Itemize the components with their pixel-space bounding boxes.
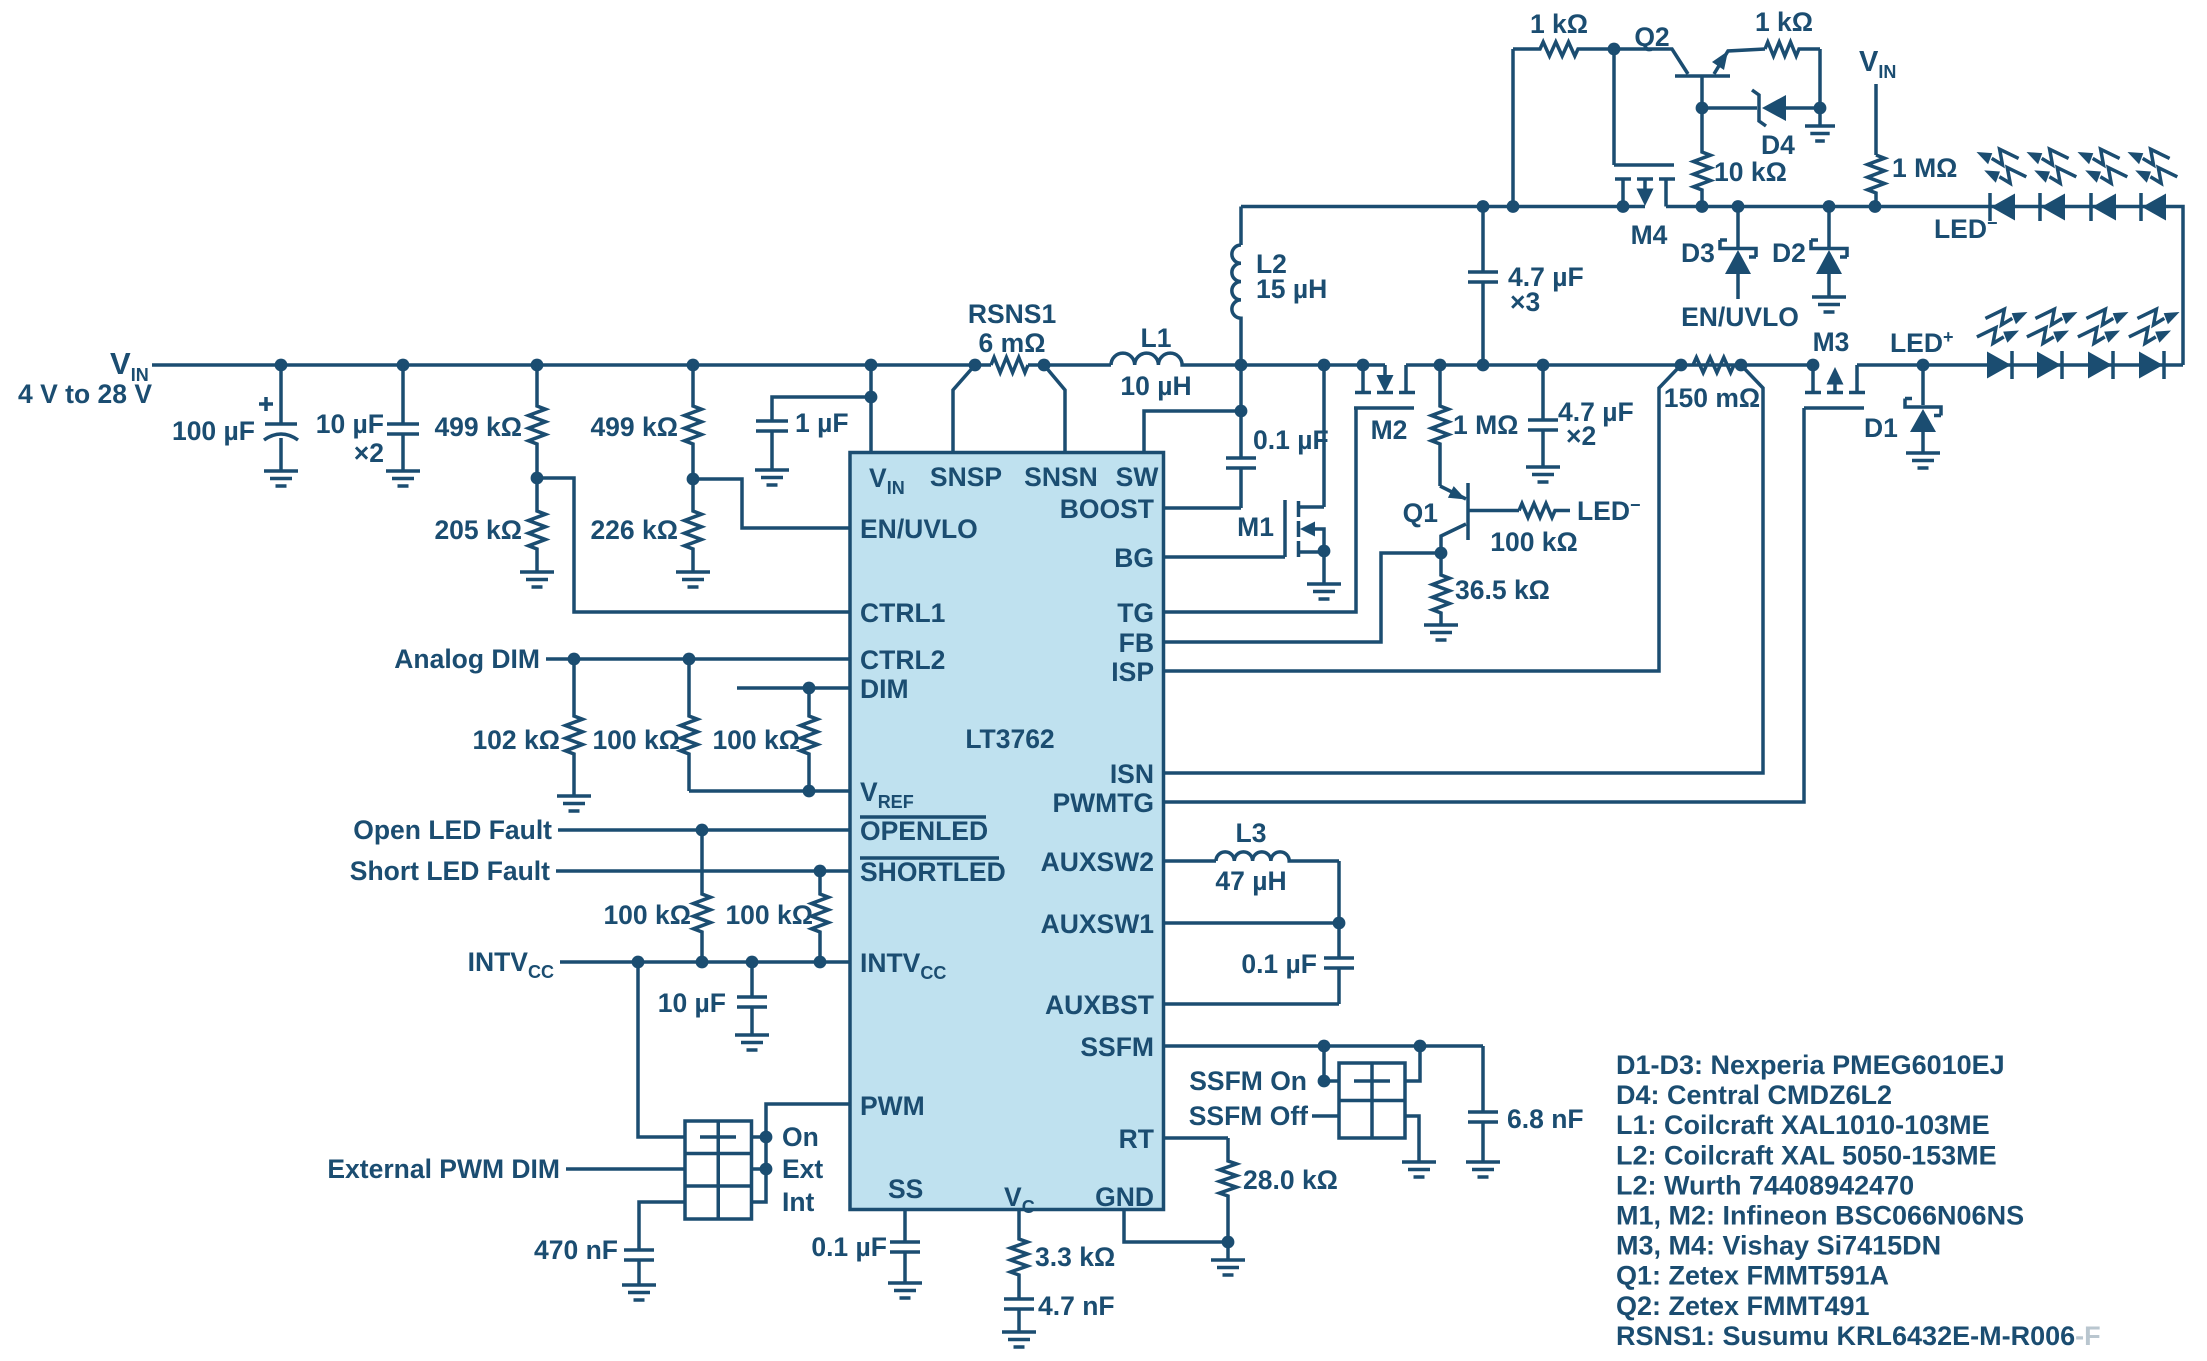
ground below SS cap bbox=[888, 1283, 922, 1298]
transistor Q2 collector lead bbox=[1614, 49, 1688, 74]
junction LED+ node bbox=[1917, 359, 1930, 372]
diode D2 cathode lead bbox=[1827, 207, 1831, 250]
svg-text:LED−: LED− bbox=[1934, 213, 1998, 244]
LED (top row) triangle at x=2091 bbox=[2092, 194, 2116, 221]
resistor 226k (second divider bottom) bbox=[685, 479, 702, 572]
diode D3 anode lead bbox=[1736, 274, 1740, 299]
wire LED- rail left bbox=[1241, 205, 1645, 209]
junction M2 source on rail bbox=[1357, 359, 1370, 372]
svg-text:Q1: Q1 bbox=[1403, 498, 1438, 528]
transistor M4 gate bar bbox=[1614, 163, 1674, 167]
svg-text:ISN: ISN bbox=[1110, 759, 1154, 789]
junction SSFM/jumper right bbox=[1414, 1040, 1427, 1053]
wire ISN pin to 150m right bbox=[1164, 365, 1763, 773]
svg-text:100 kΩ: 100 kΩ bbox=[1490, 527, 1578, 557]
svg-text:OPENLED: OPENLED bbox=[860, 816, 988, 846]
transistor M4 source lead bbox=[1621, 179, 1625, 207]
svg-text:1 µF: 1 µF bbox=[795, 408, 849, 438]
wire LED- rail right bbox=[1666, 205, 1990, 209]
wire SSFM On stub bbox=[1324, 1079, 1339, 1083]
diode D2 cathode bar bbox=[1811, 240, 1847, 257]
svg-text:Short LED Fault: Short LED Fault bbox=[350, 856, 550, 886]
svg-text:ISP: ISP bbox=[1111, 657, 1154, 687]
svg-text:36.5 kΩ: 36.5 kΩ bbox=[1455, 575, 1550, 605]
capacitor C-470nF plates bbox=[624, 1250, 654, 1260]
transistor M2 body lead bbox=[1383, 365, 1387, 376]
wire bottom LED string bbox=[1923, 363, 2183, 367]
junction LED- rail / 1M VIN bbox=[1869, 200, 1882, 213]
ground below 470nF bbox=[622, 1285, 656, 1300]
wire External PWM DIM bbox=[566, 1167, 685, 1171]
wire 1k left riser bbox=[1511, 49, 1515, 207]
diode D1 bottom lead bbox=[1921, 432, 1925, 453]
light arrows LED bottom 4 bbox=[2137, 309, 2179, 325]
svg-text:M3, M4: Vishay Si7415DN: M3, M4: Vishay Si7415DN bbox=[1616, 1231, 1941, 1261]
junction GND/RT/ground bbox=[1222, 1236, 1235, 1249]
junction 150m right kelvin bbox=[1735, 359, 1748, 372]
wire VREF bbox=[689, 789, 851, 793]
wire jumper Ext stub bbox=[752, 1167, 767, 1171]
resistor 100k (openled) bbox=[694, 830, 711, 962]
svg-text:BOOST: BOOST bbox=[1060, 494, 1154, 524]
resistor 1M (Q1 collector) bbox=[1432, 365, 1449, 486]
wire ground stub GND node bbox=[1226, 1242, 1230, 1260]
svg-text:SSFM: SSFM bbox=[1080, 1032, 1154, 1062]
capacitor C-0.1uF boost top lead bbox=[1239, 411, 1243, 458]
transistor M3 source lead bbox=[1811, 365, 1815, 391]
junction LED- rail / D2 bbox=[1823, 200, 1836, 213]
wire FB pin bbox=[1164, 553, 1441, 642]
ground below 4.7nF bbox=[1002, 1332, 1036, 1347]
svg-text:SW: SW bbox=[1116, 462, 1159, 492]
svg-text:6.8 nF: 6.8 nF bbox=[1507, 1104, 1584, 1134]
resistor 499k (first divider top) bbox=[529, 365, 546, 478]
junction SSFM/On riser bbox=[1318, 1040, 1331, 1053]
resistor RSNS1 6mOhm bbox=[991, 357, 1028, 372]
light arrows LED bottom 1 bbox=[1985, 309, 2027, 325]
svg-text:D4: Central CMDZ6L2: D4: Central CMDZ6L2 bbox=[1616, 1080, 1892, 1110]
svg-text:100 µF: 100 µF bbox=[172, 416, 255, 446]
junction AnalogDIM/102k bbox=[568, 653, 581, 666]
junction D4 anode node bbox=[1814, 102, 1827, 115]
wire SSFM On riser bbox=[1322, 1046, 1326, 1081]
transistor M3 drain lead bbox=[1855, 365, 1859, 391]
capacitor C-4.7uFx3 bottom lead bbox=[1481, 282, 1485, 365]
LED (top row) triangle at x=2141 bbox=[2142, 194, 2166, 221]
svg-text:AUXSW2: AUXSW2 bbox=[1041, 847, 1154, 877]
svg-text:SNSN: SNSN bbox=[1024, 462, 1098, 492]
svg-text:FB: FB bbox=[1119, 628, 1154, 658]
svg-text:D1: D1 bbox=[1864, 413, 1898, 443]
resistor 150mOhm bbox=[1693, 357, 1734, 372]
junction INTVCC/100k-5 bbox=[814, 956, 827, 969]
svg-text:1 kΩ: 1 kΩ bbox=[1755, 7, 1813, 37]
wire rail L1 node to M1 drain node bbox=[1241, 363, 1385, 367]
ground below 36.5k bbox=[1424, 625, 1458, 640]
capacitor C-10uF top lead bbox=[401, 365, 405, 424]
ground below 100uF bbox=[264, 471, 298, 486]
resistor 1k right bbox=[1765, 42, 1820, 56]
transistor M1 body arrow bbox=[1300, 522, 1315, 537]
light arrows LED top 2 bbox=[2027, 149, 2069, 165]
junction Q2 collector node bbox=[1608, 43, 1621, 56]
capacitor C-4.7nF bottom lead bbox=[1017, 1309, 1021, 1332]
svg-text:×3: ×3 bbox=[1510, 287, 1540, 317]
resistor 205k (first divider bottom) bbox=[529, 478, 546, 572]
svg-text:D3: D3 bbox=[1681, 238, 1715, 268]
svg-text:205 kΩ: 205 kΩ bbox=[434, 515, 522, 545]
capacitor C-6.8nF plates bbox=[1468, 1112, 1498, 1122]
svg-text:L2: Wurth 74408942470: L2: Wurth 74408942470 bbox=[1616, 1170, 1914, 1200]
wire CTRL1 from divider 1 bbox=[537, 478, 851, 612]
wire SNSP kelvin bbox=[953, 365, 975, 452]
svg-text:4 V to 28 V: 4 V to 28 V bbox=[18, 379, 152, 409]
wire ISP pin to 150m left bbox=[1164, 365, 1681, 671]
capacitor C-0.1uF ss top lead bbox=[903, 1210, 907, 1243]
transistor M4 drain lead bbox=[1664, 179, 1668, 207]
svg-text:×2: ×2 bbox=[354, 438, 384, 468]
junction LED- rail / D3 bbox=[1732, 200, 1745, 213]
svg-text:L2: Coilcraft XAL 5050-153ME: L2: Coilcraft XAL 5050-153ME bbox=[1616, 1140, 1997, 1170]
svg-text:Q2: Zetex FMMT491: Q2: Zetex FMMT491 bbox=[1616, 1291, 1870, 1321]
svg-text:PWM: PWM bbox=[860, 1091, 925, 1121]
junction rail / 4.7uFx2 bbox=[1537, 359, 1550, 372]
svg-text:10 µF: 10 µF bbox=[658, 988, 726, 1018]
junction LED- rail / M4 source bbox=[1617, 200, 1630, 213]
svg-text:100 kΩ: 100 kΩ bbox=[592, 725, 680, 755]
junction VIN drop / 1uF branch bbox=[865, 391, 878, 404]
transistor M1 gate bar bbox=[1283, 500, 1287, 557]
wire OPENLED bbox=[558, 828, 851, 832]
junction SHORTLED/100k bbox=[814, 865, 827, 878]
resistor 102k bbox=[566, 659, 583, 796]
svg-text:D2: D2 bbox=[1772, 238, 1806, 268]
wire AUXBST pin bbox=[1164, 1002, 1339, 1006]
capacitor C-100uF top lead bbox=[279, 365, 283, 424]
ground below D2 bbox=[1812, 297, 1846, 312]
wire SHORTLED bbox=[556, 869, 851, 873]
wire top LED string bbox=[1990, 207, 2183, 366]
svg-text:INTVCC: INTVCC bbox=[468, 947, 554, 982]
svg-text:SHORTLED: SHORTLED bbox=[860, 857, 1006, 887]
ground below 102k bbox=[557, 796, 591, 811]
junction M1 source/body bbox=[1318, 545, 1331, 558]
wire RT pin bbox=[1164, 1136, 1228, 1140]
ground below GND node bbox=[1211, 1260, 1245, 1275]
wire VIN rail left segment bbox=[152, 363, 991, 367]
svg-text:EN/UVLO: EN/UVLO bbox=[1681, 302, 1799, 332]
transistor Q2 base lead bbox=[1700, 76, 1704, 108]
wire jumper On stub bbox=[752, 1135, 767, 1139]
svg-text:On: On bbox=[782, 1122, 819, 1152]
svg-text:LED−: LED− bbox=[1577, 495, 1641, 526]
capacitor C-470nF bottom lead bbox=[637, 1260, 641, 1285]
inductor L2 15uH bbox=[1232, 207, 1241, 366]
LED (bottom row) triangle at x=2062 bbox=[2037, 352, 2061, 379]
wire PWMTG pin to M3 gate bbox=[1164, 408, 1804, 802]
svg-text:RSNS1: Susumu KRL6432E-M-R006-: RSNS1: Susumu KRL6432E-M-R006-F bbox=[1616, 1321, 2101, 1351]
transistor M3 channel segments bbox=[1805, 391, 1865, 395]
svg-text:499 kΩ: 499 kΩ bbox=[590, 412, 678, 442]
light arrows LED top 1 bbox=[1977, 149, 2019, 165]
svg-text:6 mΩ: 6 mΩ bbox=[979, 328, 1046, 358]
svg-text:1 kΩ: 1 kΩ bbox=[1530, 9, 1588, 39]
svg-text:102 kΩ: 102 kΩ bbox=[472, 725, 560, 755]
resistor 499k (second divider top) bbox=[685, 365, 702, 479]
transistor M4 body lead bbox=[1643, 179, 1647, 189]
svg-text:PWMTG: PWMTG bbox=[1052, 788, 1154, 818]
wire Q2 node to M4 gate bbox=[1612, 49, 1616, 165]
LED (bottom row) triangle at x=2113 bbox=[2088, 352, 2112, 379]
capacitor C-0.1uF boost plates bbox=[1226, 458, 1256, 468]
resistor 10k bbox=[1694, 108, 1711, 207]
ground below 4.7uFx2 bbox=[1526, 467, 1560, 482]
diode D3 cathode bar bbox=[1720, 240, 1756, 257]
ground below 1uF bbox=[755, 470, 789, 485]
transistor M2 drain lead bbox=[1404, 365, 1408, 391]
capacitor C-1uF top lead bbox=[772, 397, 871, 421]
svg-text:Ext: Ext bbox=[782, 1154, 823, 1184]
svg-text:DIM: DIM bbox=[860, 674, 909, 704]
svg-text:SSFM On: SSFM On bbox=[1189, 1066, 1307, 1096]
capacitor C-0.1uF ss plates bbox=[890, 1242, 920, 1252]
capacitor C-4.7nF plates bbox=[1004, 1299, 1034, 1309]
wire VIN pin drop bbox=[869, 365, 873, 452]
wire INTVCC riser to jumper bbox=[638, 962, 685, 1137]
capacitor C-0.1uF boost bottom lead bbox=[1239, 468, 1243, 508]
wire SSFM Off stub bbox=[1312, 1114, 1339, 1118]
transistor M3 body arrow bbox=[1827, 367, 1844, 385]
diode D4 cathode lead bbox=[1702, 106, 1757, 110]
transistor Q1 base lead bbox=[1468, 509, 1519, 513]
junction 499k/205k divider 1 bbox=[531, 472, 544, 485]
junction SNSN kelvin bbox=[1038, 359, 1051, 372]
junction main rail / 10uF bbox=[397, 359, 410, 372]
junction main rail / 499k-2 bbox=[687, 359, 700, 372]
ground below M1 bbox=[1307, 584, 1341, 599]
wire rail M3 to LED+ bbox=[1857, 363, 1923, 367]
diode D3 triangle bbox=[1725, 250, 1751, 274]
svg-text:×2: ×2 bbox=[1566, 421, 1596, 451]
LED (top row) bar at x=2091 bbox=[2089, 193, 2093, 221]
wire GND pin bbox=[1124, 1210, 1228, 1243]
junction main rail / VIN pin drop bbox=[865, 359, 878, 372]
LED (bottom row) triangle at x=2012 bbox=[1987, 352, 2011, 379]
svg-text:226 kΩ: 226 kΩ bbox=[590, 515, 678, 545]
svg-text:M1: M1 bbox=[1237, 512, 1274, 542]
svg-text:RT: RT bbox=[1119, 1124, 1154, 1154]
svg-text:LT3762: LT3762 bbox=[965, 724, 1054, 754]
LED (top row) bar at x=1990 bbox=[1988, 193, 1992, 221]
junction main rail / 100uF bbox=[275, 359, 288, 372]
transistor Q1 emitter lead bbox=[1440, 486, 1466, 499]
wire SSFM pin bbox=[1164, 1044, 1483, 1048]
svg-text:M2: M2 bbox=[1371, 415, 1408, 445]
wire BG pin to M1 gate bbox=[1164, 555, 1285, 559]
LED (bottom row) bar at x=2164 bbox=[2162, 351, 2166, 379]
transistor Q1 emitter arrow bbox=[1448, 486, 1466, 499]
svg-text:47 µH: 47 µH bbox=[1215, 866, 1286, 896]
transistor M2 gate bar bbox=[1354, 406, 1414, 410]
junction AnalogDIM/100k bbox=[683, 653, 696, 666]
junction jumper On bbox=[760, 1131, 773, 1144]
overline OPENLED bbox=[860, 815, 986, 819]
svg-text:150 mΩ: 150 mΩ bbox=[1664, 383, 1760, 413]
svg-text:10 µH: 10 µH bbox=[1120, 371, 1191, 401]
junction rail / 4.7uFx3 riser bbox=[1477, 359, 1490, 372]
svg-text:L1: Coilcraft XAL1010-103ME: L1: Coilcraft XAL1010-103ME bbox=[1616, 1110, 1990, 1140]
svg-text:BG: BG bbox=[1114, 543, 1154, 573]
wire L3 to AUXSW1 node bbox=[1337, 861, 1341, 923]
svg-text:4.7 nF: 4.7 nF bbox=[1038, 1291, 1115, 1321]
transistor M4 channel segments bbox=[1615, 177, 1675, 181]
svg-text:External PWM DIM: External PWM DIM bbox=[327, 1154, 560, 1184]
wire Analog DIM to CTRL2 bbox=[546, 657, 851, 661]
ground below 6.8nF bbox=[1466, 1162, 1500, 1177]
capacitor C-0.1uF ss bottom lead bbox=[903, 1252, 907, 1283]
junction DIM/100k bbox=[803, 682, 816, 695]
wire VIN to 1M bbox=[1874, 84, 1878, 155]
wire rail M2 to M3 bbox=[1406, 363, 1818, 367]
junction D4 cathode node bbox=[1696, 102, 1709, 115]
svg-text:TG: TG bbox=[1117, 598, 1154, 628]
transistor M1 source lead bbox=[1299, 550, 1325, 554]
ground at D4 bbox=[1805, 126, 1835, 141]
overline SHORTLED bbox=[860, 856, 999, 860]
transistor Q2 base bar bbox=[1675, 74, 1730, 78]
capacitor C-100uF plates bbox=[264, 424, 298, 440]
wire DIM pin stub bbox=[737, 686, 851, 690]
transistor M2 source lead bbox=[1361, 365, 1365, 391]
resistor 3.3k bbox=[1011, 1210, 1028, 1300]
resistor 100k (Q1 base) bbox=[1519, 504, 1570, 518]
diode D2 anode lead bbox=[1827, 274, 1831, 297]
junction INTVCC/10uF bbox=[746, 956, 759, 969]
diode D2 triangle bbox=[1816, 250, 1842, 274]
diode D1 anode lead bbox=[1921, 365, 1925, 405]
diode D4 zener bar bbox=[1752, 90, 1766, 126]
junction main rail / 499k-1 bbox=[531, 359, 544, 372]
svg-text:470 nF: 470 nF bbox=[534, 1235, 618, 1265]
transistor M1 body lead bbox=[1315, 529, 1324, 552]
capacitor C-10uF intvcc top lead bbox=[750, 962, 754, 997]
junction M3 source on rail bbox=[1807, 359, 1820, 372]
wire rail RSNS1 to L1 bbox=[1028, 363, 1111, 367]
capacitor C-4.7uFx2 plates bbox=[1528, 420, 1558, 430]
light arrows LED top 3 bbox=[2078, 149, 2120, 165]
transistor M2 body arrow bbox=[1377, 375, 1394, 393]
inductor L1 10uH bbox=[1111, 353, 1241, 365]
transistor M3 gate bar bbox=[1804, 406, 1864, 410]
transistor Q1 collector lead bbox=[1441, 524, 1466, 553]
ground below D1 bbox=[1906, 453, 1940, 468]
op-amp U1 LT3762 body bbox=[850, 453, 1164, 1210]
resistor 1k left bbox=[1513, 42, 1614, 56]
svg-text:0.1 µF: 0.1 µF bbox=[1253, 425, 1329, 455]
wire SW pin connection bbox=[1144, 411, 1241, 452]
svg-text:1 MΩ: 1 MΩ bbox=[1453, 410, 1518, 440]
transistor M3 body lead bbox=[1833, 383, 1837, 391]
wire SW node drop bbox=[1239, 365, 1243, 411]
svg-text:3.3 kΩ: 3.3 kΩ bbox=[1035, 1242, 1115, 1272]
svg-text:0.1 µF: 0.1 µF bbox=[811, 1232, 887, 1262]
junction VREF/100k bbox=[803, 785, 816, 798]
ground below 10uF intvcc bbox=[735, 1035, 769, 1050]
LED (bottom row) bar at x=2012 bbox=[2010, 351, 2014, 379]
junction INTVCC/riser bbox=[632, 956, 645, 969]
LED (bottom row) bar at x=2062 bbox=[2060, 351, 2064, 379]
junction LED- rail / 10k bbox=[1696, 200, 1709, 213]
svg-text:1 MΩ: 1 MΩ bbox=[1892, 153, 1957, 183]
LED (top row) bar at x=2141 bbox=[2139, 193, 2143, 221]
svg-text:10 µF: 10 µF bbox=[316, 409, 384, 439]
capacitor C-10uF plates bbox=[387, 424, 419, 434]
wire PWM pin bbox=[752, 1104, 852, 1202]
resistor 1M (top) bbox=[1868, 155, 1885, 207]
wire EN/UVLO from divider 2 bbox=[693, 479, 851, 528]
transistor M1 drain lead bbox=[1299, 505, 1325, 509]
light arrows LED bottom 2 bbox=[2035, 309, 2077, 325]
svg-text:AUXBST: AUXBST bbox=[1045, 990, 1154, 1020]
svg-text:L1: L1 bbox=[1141, 323, 1172, 353]
svg-text:Open LED Fault: Open LED Fault bbox=[353, 815, 552, 845]
transistor M4 body arrow bbox=[1637, 189, 1654, 207]
junction OPENLED/100k bbox=[696, 824, 709, 837]
diode D1 triangle bbox=[1910, 409, 1936, 432]
resistor 100k (shortled) bbox=[812, 871, 829, 962]
resistor 100k (dim) bbox=[801, 688, 818, 791]
svg-text:Analog DIM: Analog DIM bbox=[394, 644, 540, 674]
junction M1 drain on rail bbox=[1318, 359, 1331, 372]
LED (bottom row) bar at x=2113 bbox=[2111, 351, 2115, 379]
LED (top row) triangle at x=1990 bbox=[1991, 194, 2015, 221]
svg-text:SSFM Off: SSFM Off bbox=[1189, 1101, 1308, 1131]
svg-text:L3: L3 bbox=[1236, 818, 1267, 848]
wire AUXSW1 pin bbox=[1164, 921, 1339, 925]
svg-text:RSNS1: RSNS1 bbox=[968, 299, 1056, 329]
svg-text:D1-D3: Nexperia PMEG6010EJ: D1-D3: Nexperia PMEG6010EJ bbox=[1616, 1050, 2005, 1080]
junction LED- rail / 4.7uFx3 bbox=[1477, 200, 1490, 213]
svg-text:M1, M2: Infineon BSC066N06NS: M1, M2: Infineon BSC066N06NS bbox=[1616, 1201, 2024, 1231]
svg-text:Int: Int bbox=[782, 1187, 815, 1217]
light arrows LED bottom 3 bbox=[2086, 309, 2128, 325]
resistor 28k bbox=[1220, 1138, 1237, 1242]
svg-text:Q1: Zetex FMMT591A: Q1: Zetex FMMT591A bbox=[1616, 1261, 1889, 1291]
wire jumper to 470nF bbox=[639, 1202, 685, 1250]
junction Q1 collector / FB / 36.5k bbox=[1435, 547, 1448, 560]
svg-text:0.1 µF: 0.1 µF bbox=[1241, 949, 1317, 979]
svg-text:VIN: VIN bbox=[1859, 46, 1896, 82]
svg-text:LED+: LED+ bbox=[1890, 327, 1954, 358]
ground below 10uF bbox=[386, 471, 420, 486]
svg-text:AUXSW1: AUXSW1 bbox=[1041, 909, 1154, 939]
svg-text:28.0 kΩ: 28.0 kΩ bbox=[1243, 1165, 1338, 1195]
capacitor C-0.1uF aux top lead bbox=[1337, 923, 1341, 958]
capacitor C-100uF bottom lead bbox=[279, 438, 283, 471]
wire SNSN kelvin bbox=[1044, 365, 1065, 452]
capacitor C-6.8nF bottom lead bbox=[1481, 1122, 1485, 1162]
ground below 226k bbox=[676, 572, 710, 587]
svg-text:100 kΩ: 100 kΩ bbox=[725, 900, 813, 930]
transistor Q2 emitter lead bbox=[1714, 49, 1765, 74]
capacitor C-4.7uFx2 top lead bbox=[1541, 365, 1545, 420]
junction SNSP kelvin bbox=[969, 359, 982, 372]
svg-text:D4: D4 bbox=[1761, 130, 1795, 160]
wire TG pin to M2 gate bbox=[1164, 408, 1356, 612]
svg-text:GND: GND bbox=[1095, 1182, 1154, 1212]
inductor L3 47uH bbox=[1164, 852, 1339, 861]
wire M1 source to ground bbox=[1322, 552, 1326, 584]
